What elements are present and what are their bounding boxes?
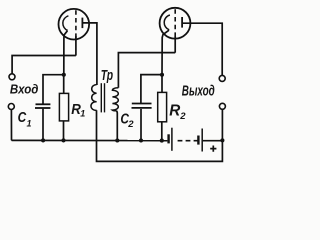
junction R2-bus [160,139,164,143]
tube V2 anode plate [181,17,183,28]
wire: filament lead V1 down to node [64,31,68,75]
junction node V2 filament/C2/R2 [160,73,164,77]
output terminal top [219,75,225,81]
wire: primary bottom down through bus to B+ return [97,110,223,161]
tube V1 anode plate [81,18,83,29]
svg-text:2: 2 [127,119,134,130]
tube V2 filament [164,15,170,30]
svg-text:Выход: Выход [182,83,215,99]
wire: input bottom terminal down to ground bus [10,110,12,141]
wire: anode V2 to output top terminal [183,23,222,75]
junction C2-bus [139,138,143,142]
wire: node to C1 top [43,75,64,105]
wire: C2 bottom lead [140,109,142,141]
tube V1 envelope [59,9,90,40]
wire: grid lead V1 [75,36,77,55]
svg-text:1: 1 [80,109,85,119]
svg-text:R: R [169,102,181,119]
svg-text:Тр: Тр [101,68,113,84]
wire: node to C2 top [141,75,162,104]
battery plus sign [210,146,216,152]
wire: R1 bottom lead [63,121,65,140]
junction R1-bus [61,138,65,142]
svg-text:С: С [18,110,27,126]
transformer Tr secondary winding [112,88,118,111]
wire: R2 bottom lead [161,122,163,141]
junction secondary-bus [115,138,119,142]
resistor R1 [59,93,68,121]
junction battery-output [220,138,224,142]
wire: secondary top to grid of V2 [118,53,175,88]
transformer core [100,83,102,112]
capacitor C2 plates [132,103,152,105]
wire: grid lead V2 [174,37,176,53]
wire: C1 bottom lead [42,109,44,141]
wire: node to R2 top [161,75,163,93]
svg-text:1: 1 [27,118,32,128]
input terminal top [9,74,15,80]
tube V2 grid (dashed) [174,9,176,37]
wire: anode V1 to transformer primary top [83,23,97,85]
resistor R2 [158,92,167,121]
wire: ground bus [12,139,168,141]
junction C1-bus [41,138,45,142]
svg-text:2: 2 [179,111,186,122]
wire: battery plus to right corner [203,140,223,142]
svg-text:Вход: Вход [10,82,39,97]
capacitor C1 plates [36,103,51,105]
transformer Tr primary winding [91,85,97,111]
battery cell 1 minus plate (short thick) [167,134,169,143]
battery cell 2 minus plate (short thick) [197,136,199,145]
wire: secondary bottom jog to bus [116,111,117,141]
input terminal bottom [8,104,14,110]
battery cell 2 plus plate (long thin) [201,129,203,152]
tube V2 envelope [160,8,191,39]
junction node V1 filament/C1/R1 [62,73,66,77]
wire: output bottom terminal to battery plus node [221,109,223,140]
tube V1 grid (dashed) [75,10,77,38]
battery cell 1 plus plate (long thin) [171,128,173,151]
wire: filament lead V2 down to node [162,30,169,75]
tube V1 filament [63,16,69,31]
output terminal bottom [219,103,225,109]
wire: node to R1 top [63,75,65,94]
wire: input top terminal to grid of V1 [12,56,76,74]
battery dashed link [178,140,199,142]
